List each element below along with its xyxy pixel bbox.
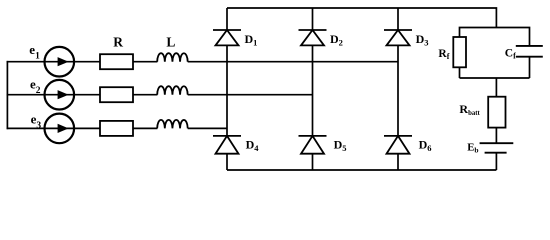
wire column 2 anode lead xyxy=(312,154,314,170)
wire phase 3 horizontal xyxy=(7,127,101,129)
wire phase 3 between R and L xyxy=(133,127,157,129)
resistor (phase 3) xyxy=(100,121,133,136)
wire phase 1 horizontal xyxy=(7,61,101,63)
resistor Rf xyxy=(453,37,466,67)
capacitor Cf xyxy=(516,46,543,57)
wire column 3 middle xyxy=(397,45,399,135)
diode D3 xyxy=(384,30,412,45)
resistor Rbatt xyxy=(488,97,505,128)
svg-text:Rf: Rf xyxy=(438,48,449,61)
svg-text:D2: D2 xyxy=(330,32,343,47)
wire column 3 cathode lead xyxy=(397,8,399,30)
inductor (phase 3) xyxy=(157,120,187,129)
svg-text:Rbatt: Rbatt xyxy=(459,102,480,117)
wire loop bottom to Rbatt xyxy=(495,78,497,97)
voltage source e3 xyxy=(45,114,75,144)
svg-text:e1: e1 xyxy=(29,42,40,61)
battery Eb xyxy=(480,143,514,153)
svg-text:D6: D6 xyxy=(419,138,432,153)
diode D1 xyxy=(213,30,241,45)
wire column 2 cathode lead xyxy=(312,8,314,30)
wire bottom bus xyxy=(227,169,496,171)
wire Rbatt to battery xyxy=(495,128,497,144)
svg-text:D1: D1 xyxy=(245,32,258,47)
inductor (phase 2) xyxy=(157,86,187,95)
voltage source e1 xyxy=(45,47,75,77)
inductor L (phase 1) xyxy=(157,53,187,62)
diode D6 xyxy=(384,136,412,154)
wire top bus xyxy=(227,8,496,28)
wire phase 2 horizontal xyxy=(7,94,101,96)
wire phase 1 between R and L xyxy=(133,61,157,63)
wire Cf bottom lead xyxy=(529,57,531,78)
svg-text:R: R xyxy=(113,34,123,49)
svg-text:e2: e2 xyxy=(30,77,41,96)
wire phase 2 between R and L xyxy=(133,94,157,96)
wire Rf bottom lead xyxy=(459,67,461,78)
wire phase 1 to D3 column xyxy=(188,61,398,63)
resistor (phase 2) xyxy=(100,87,133,102)
svg-text:D4: D4 xyxy=(246,138,260,153)
diode D4 xyxy=(213,136,241,154)
svg-text:D3: D3 xyxy=(416,32,429,47)
wire column 1 cathode lead xyxy=(226,8,228,30)
resistor R (phase 1) xyxy=(100,54,133,69)
svg-text:D5: D5 xyxy=(334,138,347,153)
wire RC loop bottom xyxy=(460,77,530,79)
wire battery to bottom bus xyxy=(495,153,497,170)
diode D5 xyxy=(299,136,327,154)
voltage source e2 xyxy=(45,80,75,110)
wire left vertical bus xyxy=(6,61,8,129)
svg-text:Cf: Cf xyxy=(505,48,516,61)
wire column 2 middle xyxy=(312,45,314,135)
wire column 1 middle xyxy=(226,45,228,135)
diode D2 xyxy=(299,30,327,45)
svg-text:L: L xyxy=(166,34,175,49)
svg-text:Eb: Eb xyxy=(467,142,478,155)
wire column 1 anode lead xyxy=(226,154,228,170)
wire column 3 anode lead xyxy=(397,154,399,170)
wire RC filter loop top xyxy=(460,28,530,47)
wire phase 2 to D2 column xyxy=(188,94,313,96)
wire phase 3 to D1 column xyxy=(188,127,227,129)
